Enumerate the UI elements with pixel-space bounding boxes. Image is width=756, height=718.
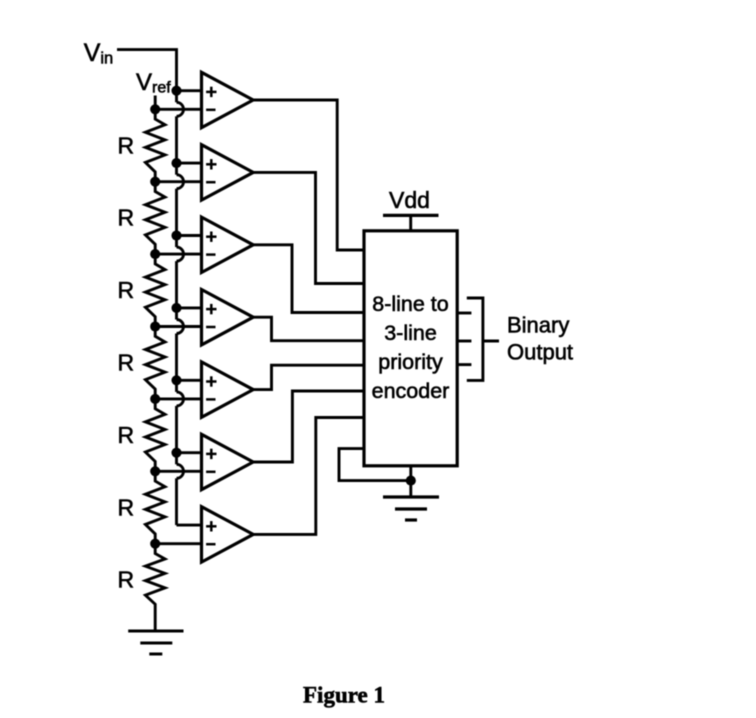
- svg-text:8-line to: 8-line to: [372, 292, 449, 316]
- svg-text:priority: priority: [378, 350, 443, 374]
- svg-text:Output: Output: [507, 340, 573, 365]
- svg-text:R: R: [118, 422, 135, 448]
- svg-text:R: R: [118, 494, 135, 520]
- svg-text:R: R: [118, 277, 135, 303]
- svg-text:Vin: Vin: [84, 39, 114, 68]
- svg-text:R: R: [118, 567, 135, 593]
- svg-text:Vref: Vref: [136, 69, 171, 97]
- svg-text:R: R: [118, 205, 135, 231]
- svg-text:Binary: Binary: [507, 313, 569, 338]
- svg-text:3-line: 3-line: [384, 321, 437, 345]
- svg-text:R: R: [118, 132, 135, 158]
- svg-text:R: R: [118, 350, 135, 376]
- svg-text:Vdd: Vdd: [389, 187, 430, 213]
- svg-text:encoder: encoder: [372, 379, 450, 403]
- svg-text:Figure 1: Figure 1: [303, 683, 385, 708]
